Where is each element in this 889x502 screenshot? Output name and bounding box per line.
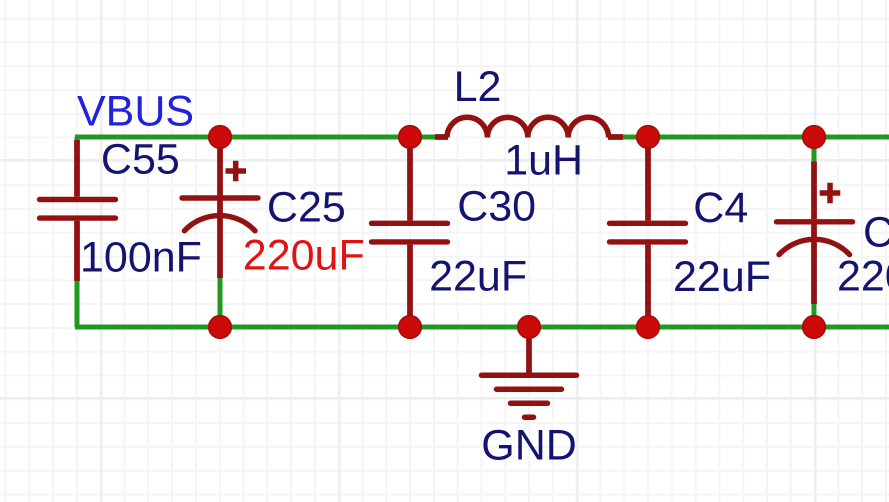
ground symbol bar 2 [497,386,562,392]
capacitor C25 curved bottom plate [184,216,255,231]
wire bottom rail [75,325,889,330]
junction bottom at GND [518,316,541,339]
junction bottom at C25 [209,316,232,339]
capacitor C25 top plate [182,195,258,200]
wire right cap bottom stub [812,302,817,327]
inductor L2 coil arcs [447,117,609,137]
junction bottom at C30 [399,316,422,339]
capacitor C24 plus sign [820,183,841,204]
wire C55 bottom stub [75,278,80,327]
capacitor C24 pins (right electrolytic) [811,162,817,305]
svg-text:VBUS: VBUS [77,87,194,135]
capacitor C30 plates [372,223,448,242]
capacitor C4 pins [645,140,651,320]
svg-text:C55: C55 [101,135,180,183]
junction bottom at C4 [637,316,660,339]
capacitor C24 curved bottom plate [779,239,850,254]
svg-text:220uF: 220uF [243,232,365,280]
junction top at C24 [803,126,826,149]
svg-text:22uF: 22uF [673,253,771,301]
wire right cap top stub [812,137,817,163]
junction top at C25 [209,126,232,149]
svg-text:C24: C24 [863,209,889,257]
wire top rail left segment [75,135,436,140]
junction top at C4 [637,126,660,149]
svg-text:GND: GND [481,421,577,469]
junction top at C30 [399,126,422,149]
svg-text:L2: L2 [454,63,502,111]
capacitor C24 top plate [777,219,853,224]
ground symbol bar 1 [482,372,577,378]
capacitor C30 pins [407,140,413,320]
capacitor C25 pins [217,140,223,278]
svg-text:220uF: 220uF [837,252,889,300]
svg-text:C25: C25 [267,184,346,232]
capacitor C55 plates [40,200,116,219]
inductor L2 pins [435,134,623,140]
capacitor C55 pins [74,140,80,281]
svg-text:100nF: 100nF [80,234,202,282]
wire left drop top corner stub [75,137,80,141]
ground symbol bar 4 [525,414,534,420]
svg-text:C30: C30 [457,182,536,230]
svg-text:22uF: 22uF [429,253,527,301]
junction bottom at C24 [803,316,826,339]
svg-text:C4: C4 [693,184,748,232]
capacitor C25 plus sign [226,161,247,182]
ground symbol stem [526,327,532,373]
wire top rail right segment [621,135,889,140]
capacitor C4 plates [610,223,686,242]
svg-text:1uH: 1uH [504,137,583,185]
wire C25 bottom stub [218,274,223,327]
ground symbol bar 3 [511,400,548,406]
